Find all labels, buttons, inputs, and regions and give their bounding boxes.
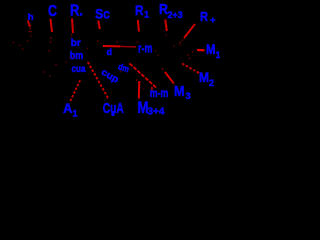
svg-text:br: br xyxy=(71,38,81,49)
arrow for h xyxy=(28,21,30,28)
svg-text:Sc: Sc xyxy=(95,5,110,21)
svg-text:r-m: r-m xyxy=(138,41,153,55)
svg-text:2: 2 xyxy=(209,78,214,88)
svg-text:A: A xyxy=(63,100,73,116)
arrow for M1 xyxy=(197,49,205,52)
svg-text:R: R xyxy=(135,2,144,18)
arrow for CuA xyxy=(88,62,109,99)
svg-text:3+4: 3+4 xyxy=(148,107,165,118)
svg-text:d: d xyxy=(107,47,113,57)
arrow for M2 xyxy=(182,64,199,74)
svg-text:2+3: 2+3 xyxy=(168,10,183,20)
arrow for R4+5 xyxy=(184,24,195,38)
arrow for M3+4 xyxy=(138,81,141,99)
arrow for R2+3 xyxy=(165,20,167,32)
arrow for A1 xyxy=(70,80,80,102)
descender of u in CuA xyxy=(112,113,115,117)
svg-text:cua: cua xyxy=(72,64,86,75)
svg-text:+: + xyxy=(210,15,216,26)
svg-text:1: 1 xyxy=(144,10,149,20)
svg-text:3: 3 xyxy=(186,91,191,102)
arrow for R. xyxy=(72,19,73,34)
arrow for M3 xyxy=(165,72,174,84)
svg-text:C: C xyxy=(48,3,57,20)
svg-text:1: 1 xyxy=(216,50,221,60)
arrow for R1 xyxy=(138,20,139,32)
arrow for C xyxy=(51,19,53,32)
svg-text:R.: R. xyxy=(70,3,83,20)
svg-text:M: M xyxy=(174,83,185,100)
svg-text:bm: bm xyxy=(70,50,84,62)
svg-text:1: 1 xyxy=(73,109,78,119)
svg-text:M: M xyxy=(206,41,216,57)
faint scattered dots (wing remnants) xyxy=(13,31,159,77)
svg-text:R: R xyxy=(200,9,209,24)
arrow for Sc xyxy=(98,21,100,30)
svg-text:M: M xyxy=(199,69,209,85)
arrow for r-m xyxy=(103,45,120,47)
arrow for m-m xyxy=(151,87,153,90)
